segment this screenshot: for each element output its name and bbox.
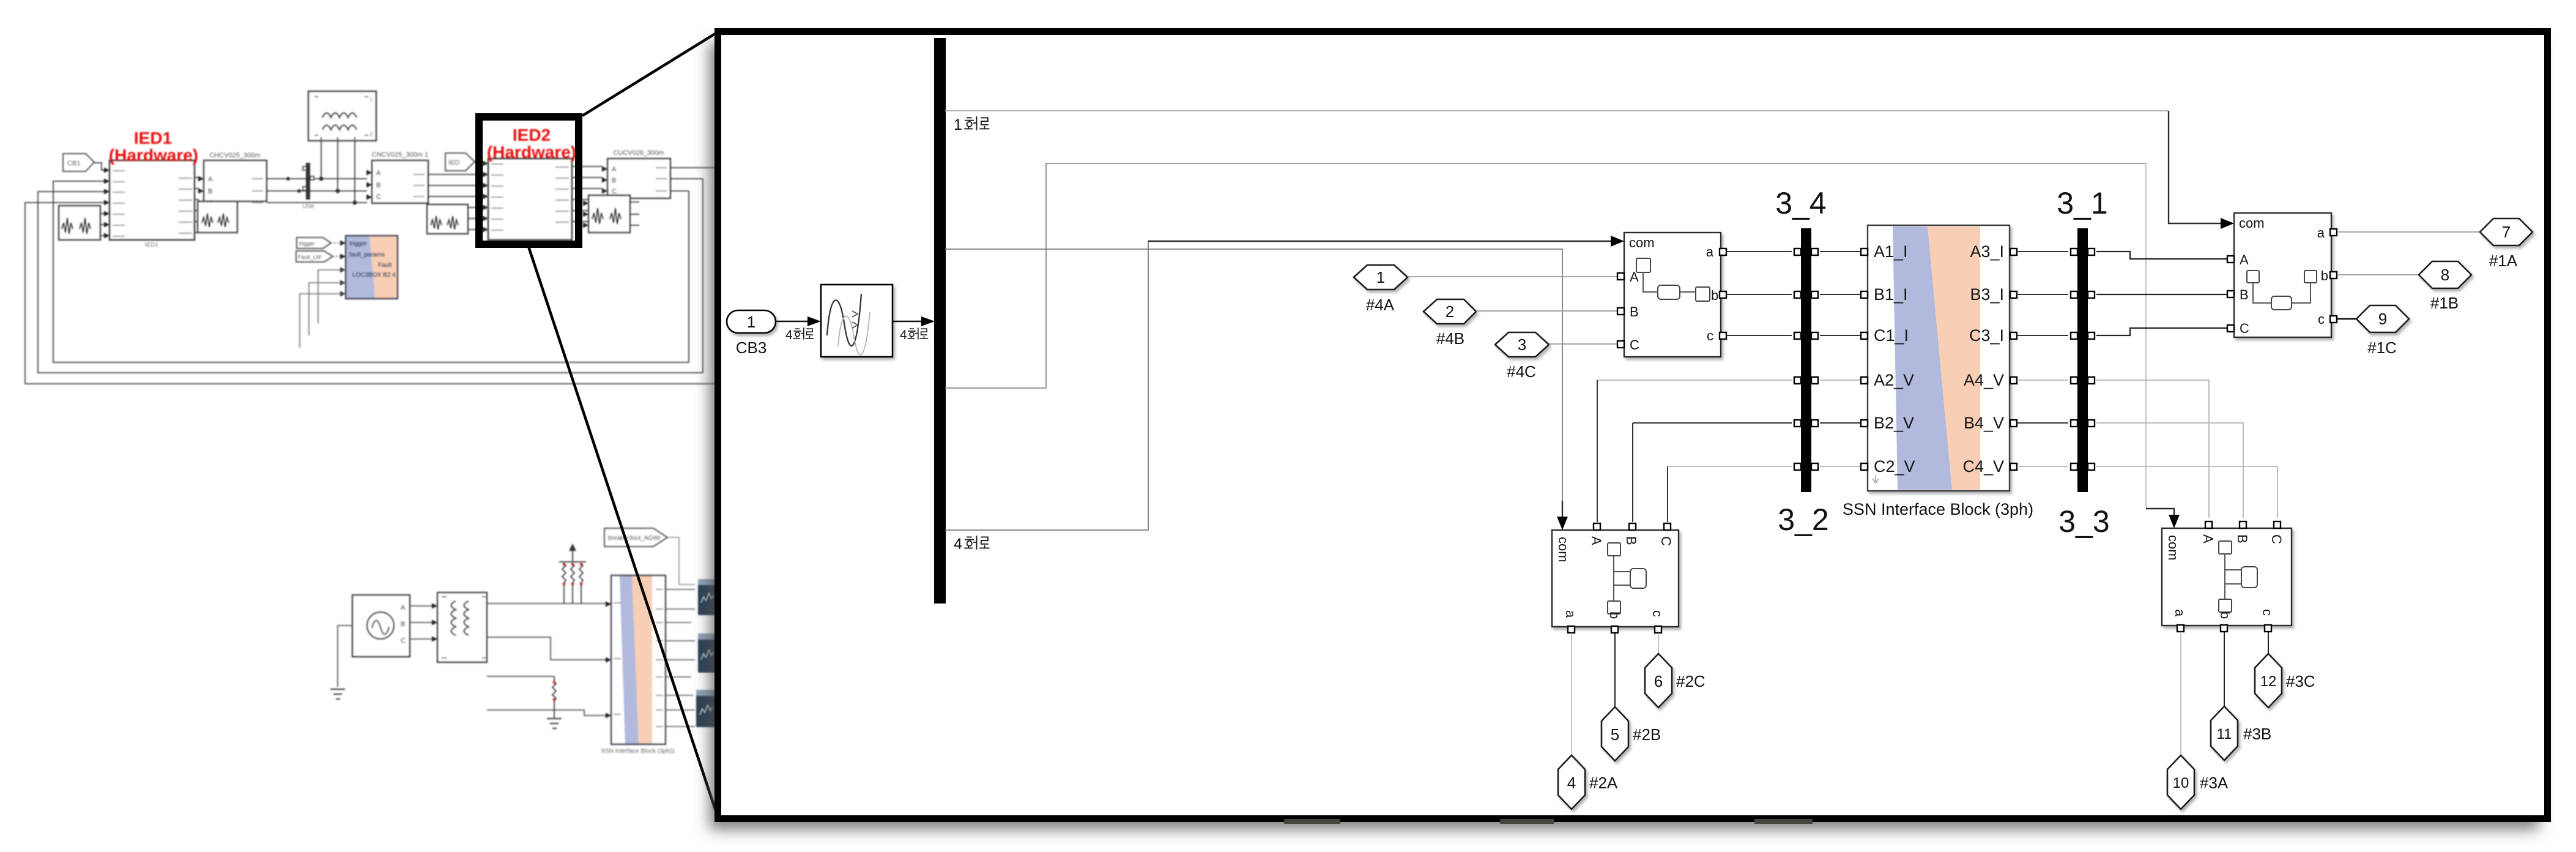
svg-text:C: C (1658, 536, 1674, 546)
svg-text:A4_V: A4_V (1964, 371, 2004, 389)
svg-text:#1C: #1C (2367, 338, 2397, 357)
svg-text:B: B (2240, 287, 2249, 302)
svg-text:A2_V: A2_V (1874, 371, 1914, 389)
svg-text:c: c (1707, 328, 1713, 343)
svg-text:#3C: #3C (2286, 672, 2315, 690)
svg-text:C: C (2269, 534, 2284, 544)
svg-text:4: 4 (954, 536, 962, 553)
svg-text:com: com (2166, 535, 2181, 561)
svg-text:B2_V: B2_V (1874, 414, 1914, 432)
svg-text:#3B: #3B (2243, 725, 2271, 743)
svg-text:1: 1 (747, 313, 755, 331)
svg-text:C2_V: C2_V (1874, 457, 1915, 476)
svg-text:#1B: #1B (2430, 294, 2459, 312)
svg-text:c: c (2318, 312, 2325, 327)
svg-text:#2B: #2B (1633, 725, 1661, 744)
svg-text:B4_V: B4_V (1964, 414, 2004, 432)
svg-text:C3_I: C3_I (1969, 326, 2004, 345)
svg-text:B: B (1624, 536, 1639, 545)
svg-text:12: 12 (2260, 673, 2277, 690)
svg-text:a: a (1563, 610, 1578, 618)
svg-text:c: c (1650, 610, 1665, 617)
svg-text:3_2: 3_2 (1778, 503, 1828, 537)
svg-text:#2A: #2A (1589, 774, 1618, 792)
svg-text:a: a (1706, 244, 1714, 260)
svg-text:3_4: 3_4 (1775, 186, 1826, 220)
svg-text:4: 4 (1567, 774, 1576, 792)
svg-text:A: A (1589, 536, 1604, 545)
svg-text:1: 1 (1376, 268, 1385, 286)
svg-text:C4_V: C4_V (1962, 457, 2004, 476)
svg-text:a: a (2317, 225, 2325, 241)
svg-text:11: 11 (2217, 726, 2232, 742)
svg-text:1: 1 (954, 116, 962, 133)
svg-text:CB3: CB3 (736, 338, 767, 357)
svg-text:SSN Interface Block (3ph): SSN Interface Block (3ph) (1843, 500, 2033, 518)
svg-text:3: 3 (1518, 335, 1526, 354)
svg-text:4: 4 (900, 328, 907, 342)
svg-text:7: 7 (2502, 223, 2511, 241)
svg-text:B: B (2235, 534, 2250, 544)
svg-text:#4C: #4C (1507, 362, 1536, 381)
svg-text:#3A: #3A (2200, 774, 2229, 792)
svg-text:A1_I: A1_I (1874, 242, 1908, 261)
svg-text:#2C: #2C (1676, 672, 1706, 690)
svg-text:c: c (2260, 609, 2275, 616)
svg-text:B1_I: B1_I (1874, 285, 1908, 304)
svg-text:C: C (2240, 321, 2249, 336)
svg-text:2: 2 (1446, 302, 1454, 321)
svg-text:b: b (1711, 288, 1718, 303)
svg-text:B3_I: B3_I (1970, 285, 2004, 304)
svg-text:B: B (1630, 304, 1639, 319)
svg-text:A3_I: A3_I (1970, 242, 2004, 261)
svg-text:9: 9 (2378, 310, 2387, 328)
svg-text:C: C (1630, 337, 1639, 353)
svg-text:b: b (2321, 268, 2328, 283)
svg-text:C1_I: C1_I (1874, 326, 1909, 345)
svg-text:#4A: #4A (1366, 296, 1395, 314)
svg-text:3_3: 3_3 (2058, 504, 2109, 539)
svg-text:3_1: 3_1 (2057, 186, 2107, 220)
svg-text:A: A (2200, 534, 2216, 544)
svg-text:8: 8 (2441, 266, 2449, 284)
svg-text:b: b (1607, 611, 1622, 619)
svg-text:com: com (2239, 215, 2265, 231)
svg-text:#4B: #4B (1436, 329, 1464, 348)
svg-text:b: b (2218, 611, 2233, 619)
svg-text:5: 5 (1611, 725, 1619, 744)
svg-text:#1A: #1A (2489, 252, 2518, 270)
svg-text:A: A (2240, 252, 2249, 267)
svg-text:a: a (2172, 609, 2188, 617)
svg-text:com: com (1556, 537, 1571, 562)
svg-text:6: 6 (1654, 672, 1663, 690)
svg-text:10: 10 (2173, 775, 2189, 791)
svg-text:com: com (1629, 235, 1655, 250)
svg-text:4: 4 (785, 328, 793, 342)
